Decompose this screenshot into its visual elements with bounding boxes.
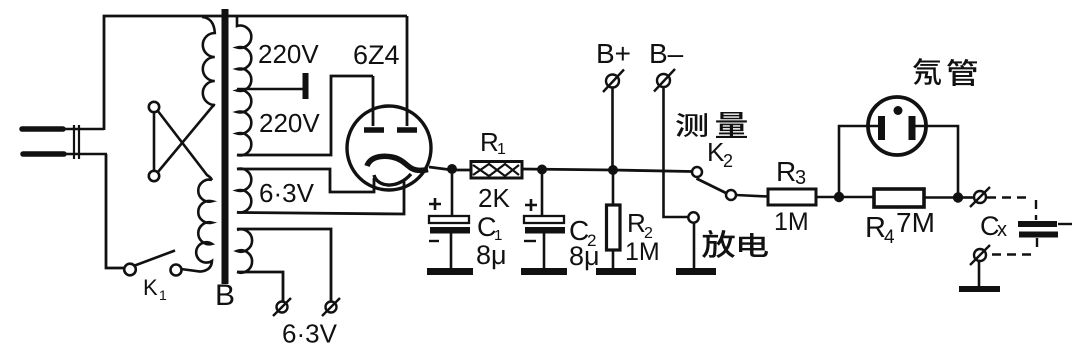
- svg-text:1: 1: [497, 141, 506, 158]
- svg-text:6·3V: 6·3V: [282, 319, 338, 349]
- terminal B-: [654, 69, 689, 217]
- transformer primary winding lower section: [181, 180, 212, 272]
- svg-text:1M: 1M: [625, 238, 660, 266]
- wire: neon lamp branch left: [839, 126, 878, 193]
- center tap lead with chassis bar: [237, 88, 303, 91]
- resistor R4: [843, 189, 958, 207]
- svg-text:220V: 220V: [259, 108, 320, 138]
- resistor R1: [471, 162, 522, 179]
- wire: node to Cx terminal: [962, 196, 974, 199]
- wire: heater winding bottom to filament right: [237, 180, 404, 214]
- svg-text:6Z4: 6Z4: [353, 40, 400, 70]
- svg-text:B–: B–: [649, 38, 684, 69]
- transformer B core: [222, 9, 229, 284]
- node: junction rail / R2 / B+: [608, 165, 618, 175]
- label 电 (discharge): [739, 233, 768, 257]
- dashed lead: Cx top: [987, 198, 1036, 221]
- resistor R2: [607, 170, 621, 268]
- wire: 220V winding bottom to left anode of 6Z4: [237, 76, 373, 155]
- label 放 (discharge): [702, 230, 735, 258]
- transformer secondary 220V winding (center-tapped): [237, 17, 251, 155]
- wire: K2 to R3: [736, 195, 768, 197]
- svg-text:220V: 220V: [258, 39, 319, 69]
- node: junction R1 / C2: [537, 165, 547, 175]
- wire: neon lamp branch right: [915, 126, 958, 193]
- terminal B+: [603, 70, 624, 167]
- svg-text:R: R: [480, 127, 499, 157]
- svg-text:1M: 1M: [774, 208, 809, 236]
- switch K2 measure contact: [726, 190, 736, 200]
- 6Z4 filament: [374, 174, 411, 185]
- node: junction R4 / neon / Cx: [953, 192, 963, 202]
- svg-text:8μ: 8μ: [569, 241, 600, 271]
- wire: plug top to transformer top rail: [104, 16, 407, 130]
- wire: discharge contact to ground: [693, 222, 696, 268]
- neon lamp 氖管: [868, 97, 926, 155]
- svg-text:2K: 2K: [478, 183, 510, 213]
- wire: 6.3V output winding to terminals: [237, 229, 331, 301]
- rectifier tube 6Z4 envelope: [347, 106, 431, 190]
- transformer primary winding upper section: [202, 17, 215, 105]
- wire: plug bottom down to switch K1: [106, 154, 124, 268]
- svg-text:R: R: [776, 156, 796, 187]
- capacitor C1 (electrolytic 8uF): [429, 169, 470, 268]
- 6Z4 left anode: [364, 76, 384, 130]
- 6Z4 right anode: [397, 16, 417, 130]
- terminal Cx top: [970, 187, 990, 207]
- svg-text:K: K: [143, 275, 158, 300]
- ground (C1): [427, 268, 473, 275]
- svg-text:2: 2: [723, 151, 733, 171]
- transformer secondary 6.3V winding (tube heater): [237, 169, 251, 213]
- transformer secondary 6.3V output winding: [237, 229, 252, 272]
- svg-text:1: 1: [159, 287, 167, 303]
- svg-text:x: x: [997, 219, 1007, 241]
- switch K1: [124, 251, 181, 276]
- switch K2 discharge contact: [688, 212, 698, 222]
- ground (discharge): [676, 268, 716, 275]
- wire: cathode output to filter: [429, 167, 470, 170]
- node: junction tube output / C1: [447, 164, 457, 174]
- label 量 (measure): [716, 112, 747, 138]
- terminal 6.3V right: [322, 298, 340, 316]
- switch K2 arm: [697, 179, 727, 194]
- voltage selector crossover switch: [149, 102, 215, 181]
- capacitor Cx under test: [1018, 221, 1072, 238]
- wire: R3 to node: [816, 196, 839, 199]
- svg-text:R: R: [865, 212, 886, 244]
- label 测 (measure): [676, 113, 707, 137]
- capacitor C2 (electrolytic 8uF): [524, 169, 565, 268]
- svg-text:B+: B+: [596, 38, 631, 69]
- label 管 (tube): [947, 59, 977, 86]
- dashed lead: Cx bottom: [990, 238, 1037, 255]
- svg-text:3: 3: [795, 167, 806, 189]
- AC mains plug: [22, 125, 107, 159]
- label 氖 (neon): [913, 58, 941, 85]
- svg-text:8μ: 8μ: [476, 240, 507, 270]
- svg-text:4: 4: [884, 227, 895, 248]
- 6Z4 cathode: [367, 156, 428, 170]
- ground (C2): [521, 268, 567, 275]
- wire: main B+ rail: [522, 169, 692, 172]
- node: junction R3 / R4 / neon: [834, 192, 844, 202]
- terminal Cx bottom: [970, 245, 990, 265]
- wire: heater winding top to filament left: [237, 169, 374, 192]
- ground (R2): [596, 268, 636, 275]
- svg-text:6·3V: 6·3V: [259, 178, 315, 208]
- switch K2 common contact: [692, 167, 702, 177]
- resistor R3: [768, 189, 816, 205]
- wire: Cx bottom terminal to ground: [978, 261, 981, 286]
- svg-text:B: B: [215, 279, 235, 312]
- svg-text:7M: 7M: [896, 207, 935, 238]
- ground (Cx): [959, 286, 1000, 292]
- terminal 6.3V left: [273, 298, 291, 316]
- svg-text:R: R: [627, 208, 646, 238]
